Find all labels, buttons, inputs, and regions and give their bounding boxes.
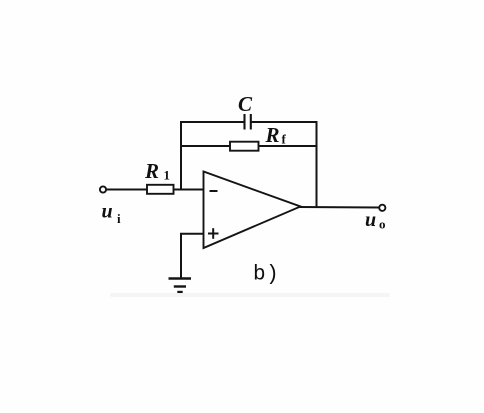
capacitor C bbox=[245, 114, 251, 130]
wire: Rf branch right segment bbox=[259, 145, 318, 147]
op-amp non-inverting input plus sign bbox=[208, 228, 219, 239]
svg-text:1: 1 bbox=[164, 168, 171, 183]
wire: ground riser down bbox=[180, 234, 182, 278]
op-amp U1 triangle bbox=[204, 172, 301, 249]
label b) subfigure caption bbox=[253, 264, 279, 287]
node: input terminal u_i circle bbox=[100, 186, 106, 192]
wire: left feedback riser (node A up to feedback branches) bbox=[180, 121, 182, 190]
resistor Rf bbox=[230, 142, 259, 151]
label u_i bbox=[102, 201, 122, 227]
svg-text:o: o bbox=[379, 217, 386, 232]
wire: non-inverting input to ground riser bbox=[180, 233, 204, 235]
op-amp inverting input minus sign bbox=[210, 190, 218, 192]
wire: Rf branch left segment bbox=[180, 145, 230, 147]
label Rf bbox=[265, 123, 287, 147]
svg-text:R: R bbox=[265, 123, 280, 147]
svg-text:R: R bbox=[144, 159, 159, 183]
svg-text:b): b) bbox=[253, 264, 279, 287]
label R1 bbox=[144, 159, 170, 183]
wire: R1 to inverting input (through node at x=181) bbox=[174, 189, 204, 191]
label C bbox=[238, 92, 253, 116]
wire: output lead from op-amp apex to terminal bbox=[299, 206, 379, 209]
node: output terminal u_o circle bbox=[379, 205, 385, 211]
ground symbol bbox=[169, 279, 192, 293]
label u_o bbox=[365, 209, 386, 232]
faint scan smudge near bottom bbox=[110, 293, 390, 297]
wire: right feedback riser down to output node bbox=[316, 121, 318, 208]
svg-text:C: C bbox=[238, 92, 253, 116]
wire: top feedback wire right segment from capacitor bbox=[252, 121, 318, 123]
svg-text:u: u bbox=[365, 209, 376, 231]
wire: input lead from terminal to R1 bbox=[106, 189, 147, 191]
wire: top feedback wire left segment to capacitor bbox=[180, 121, 244, 123]
svg-text:i: i bbox=[117, 211, 121, 226]
resistor R1 bbox=[147, 185, 174, 194]
svg-text:u: u bbox=[102, 201, 113, 223]
svg-text:f: f bbox=[282, 132, 287, 147]
